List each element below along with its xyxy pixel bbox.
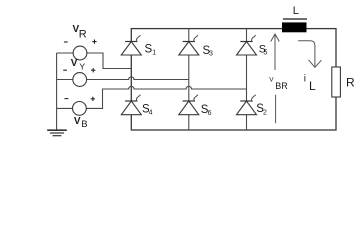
svg-text:Y: Y [79, 61, 85, 71]
wire common neutral vertical [56, 53, 58, 130]
voltage source VY [63, 58, 95, 86]
svg-text:V: V [71, 58, 78, 69]
wire Y phase from source VY to leg 2 (hop over leg 1) [57, 77, 189, 80]
wire R phase from source VR to leg 1 [57, 53, 132, 69]
svg-text:BR: BR [275, 81, 288, 91]
svg-text:2: 2 [263, 110, 267, 117]
svg-text:3: 3 [209, 51, 213, 58]
svg-text:L: L [309, 79, 316, 93]
svg-text:6: 6 [208, 110, 212, 117]
voltage arrow VBR [269, 34, 288, 123]
wire bridge leg 3 [246, 29, 248, 130]
svg-text:i: i [304, 73, 306, 84]
svg-text:V: V [74, 116, 81, 127]
svg-text:5: 5 [264, 50, 268, 57]
wire bridge leg 2 [188, 29, 190, 130]
svg-text:B: B [81, 119, 87, 130]
svg-text:V: V [269, 76, 274, 83]
svg-text:R: R [79, 29, 87, 41]
wire B phase from source VB to leg 3 (hops over legs 1 and 2) [57, 86, 247, 108]
thyristor S4 [121, 95, 152, 117]
svg-text:L: L [293, 5, 299, 17]
svg-text:4: 4 [149, 110, 153, 117]
inductor L [282, 5, 307, 33]
voltage source VR [64, 24, 97, 60]
voltage source VB [65, 97, 96, 131]
svg-text:R: R [346, 76, 355, 90]
wire bridge outer frame (top rail, right side, bottom rail, leg 1) [131, 29, 336, 130]
thyristor S3 [179, 35, 213, 57]
thyristor S2 [237, 95, 268, 117]
thyristor S6 [179, 95, 212, 117]
current arrow iL [298, 41, 321, 93]
resistor R [332, 67, 355, 97]
thyristor S1 [121, 35, 156, 56]
ground [47, 130, 67, 136]
svg-text:1: 1 [152, 50, 156, 57]
thyristor S5 [237, 35, 268, 57]
